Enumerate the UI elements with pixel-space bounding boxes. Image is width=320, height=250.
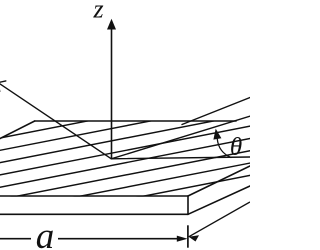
- strip direction line from origin: [111, 116, 250, 159]
- incident ray: [0, 83, 111, 159]
- top face back edge: [35, 120, 236, 122]
- front face bottom edge: [0, 213, 188, 215]
- a dimension line right part: [58, 238, 178, 240]
- theta arc: [217, 139, 231, 158]
- front face right vertical edge: [187, 196, 189, 214]
- horizontal reference line from origin: [111, 157, 250, 159]
- front face top edge: [0, 195, 188, 197]
- svg-text:z: z: [92, 0, 103, 24]
- z axis shaft: [111, 27, 113, 159]
- right side face top edge: [188, 166, 250, 196]
- upper steep strip line top right: [182, 98, 250, 125]
- incident ray open arrowhead barbs: [0, 81, 6, 92]
- leader diagonal line: [189, 202, 250, 237]
- svg-text:θ: θ: [230, 134, 242, 161]
- top face left edge: [0, 121, 35, 139]
- right side face bottom edge: [188, 186, 250, 214]
- extension line at right corner: [187, 225, 189, 247]
- a dimension right arrowhead: [177, 236, 188, 242]
- z axis arrowhead: [107, 19, 116, 30]
- theta arc arrowhead: [213, 129, 221, 140]
- leader diagonal arrowhead: [189, 235, 199, 241]
- hatch strips on top face: [0, 88, 255, 225]
- svg-text:a: a: [36, 216, 55, 250]
- a dimension line left part: [0, 238, 31, 240]
